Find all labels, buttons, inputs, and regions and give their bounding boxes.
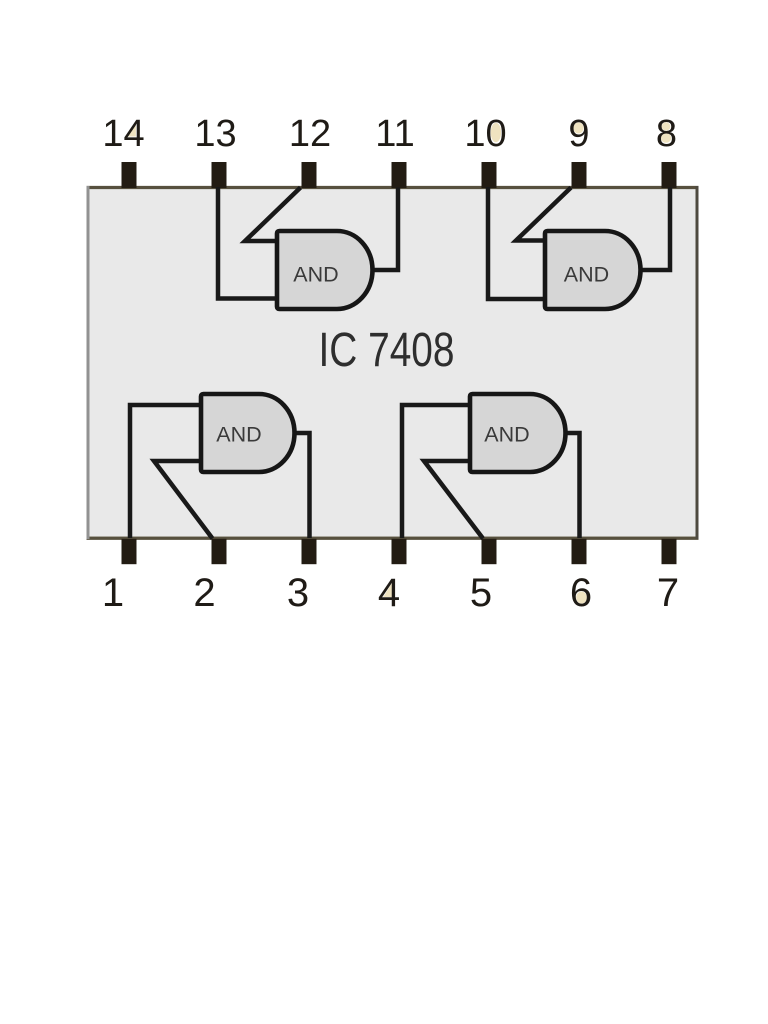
wire U4 output to pin6: [566, 433, 580, 538]
pin label 8: [656, 113, 677, 155]
pin label 4: [378, 571, 400, 615]
pin label 6: [570, 571, 592, 615]
wire U3 output to pin3: [295, 433, 310, 538]
svg-text:AND: AND: [484, 423, 529, 447]
AND gate U2: [545, 231, 641, 309]
pin label 9: [568, 113, 589, 155]
svg-text:12: 12: [289, 113, 331, 155]
wire pin5 to U4 input B: [424, 461, 483, 539]
svg-text:IC 7408: IC 7408: [319, 324, 455, 377]
svg-text:AND: AND: [564, 263, 609, 287]
pin label 10: [464, 113, 506, 155]
pin 4 (bottom): [392, 539, 407, 564]
wire pin13 to U1 input B: [218, 187, 277, 299]
svg-text:8: 8: [656, 113, 677, 155]
svg-text:3: 3: [287, 571, 309, 615]
svg-text:AND: AND: [293, 263, 338, 287]
wire pin4 to U4 input A: [402, 405, 470, 538]
svg-text:6: 6: [570, 571, 592, 615]
wire U1 output to pin11: [373, 188, 398, 271]
AND gate U4: [470, 394, 566, 472]
pin 2 (bottom): [212, 539, 227, 564]
pin 11 (top): [392, 162, 407, 188]
svg-text:13: 13: [194, 113, 236, 155]
IC 7408 package body: [87, 186, 699, 539]
pin 8 (top): [662, 162, 677, 188]
pin label 14: [102, 113, 144, 155]
pin 12 (top): [302, 162, 317, 188]
pin 13 (top): [212, 162, 227, 188]
wire pin1 to U3 input A: [130, 405, 201, 538]
pin 10 (top): [482, 162, 497, 188]
pin 7 (bottom): [662, 539, 677, 564]
pin 14 (top): [122, 162, 137, 188]
svg-text:9: 9: [568, 113, 589, 155]
pin 9 (top): [572, 162, 587, 188]
svg-text:14: 14: [102, 113, 144, 155]
pin 1 (bottom): [122, 539, 137, 564]
svg-text:10: 10: [464, 113, 506, 155]
wire pin10 to U2 input B: [488, 187, 545, 299]
svg-text:5: 5: [470, 571, 492, 615]
svg-text:11: 11: [375, 113, 414, 155]
svg-text:2: 2: [193, 571, 215, 615]
pin 3 (bottom): [302, 539, 317, 564]
pin 6 (bottom): [572, 539, 587, 564]
wire pin9 to U2 input A: [516, 188, 571, 241]
wire U2 output to pin8: [641, 188, 670, 271]
wire pin12 to U1 input A: [245, 188, 301, 242]
svg-text:4: 4: [378, 571, 400, 615]
AND gate U3: [201, 394, 295, 472]
AND gate U1: [277, 231, 372, 309]
svg-text:1: 1: [102, 571, 124, 615]
wire pin2 to U3 input B: [154, 461, 213, 539]
svg-text:AND: AND: [216, 423, 261, 447]
pin 5 (bottom): [482, 539, 497, 564]
svg-text:7: 7: [657, 571, 679, 615]
